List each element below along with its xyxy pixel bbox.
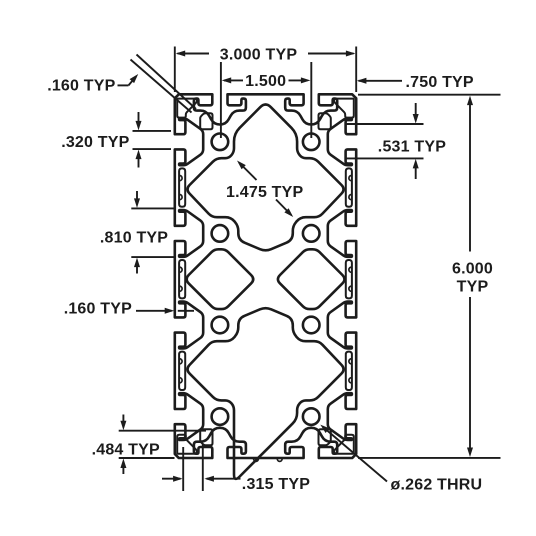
pocket bottom-left <box>200 429 212 445</box>
hole r4 c2 (dia .262) <box>303 408 320 425</box>
svg-text:.484 TYP: .484 TYP <box>92 442 160 459</box>
hole r2 c1 (dia .262) <box>212 225 229 242</box>
svg-text:.531 TYP: .531 TYP <box>378 139 446 156</box>
corner chamber top-left <box>177 99 197 118</box>
face channel serration bump right <box>349 378 352 383</box>
face channel strip-left-1 <box>179 168 185 206</box>
dimension .750 TYP (edge to slot) <box>357 74 474 91</box>
svg-text:6.000: 6.000 <box>452 261 493 278</box>
face channel strip-left-3 <box>179 352 185 390</box>
dimension .320 TYP <box>61 112 171 168</box>
face channel strip-right-1 <box>346 168 352 206</box>
pocket top-left <box>200 113 212 129</box>
face channel serration bump right <box>349 359 352 364</box>
dimension 6.000 TYP (overall height) <box>358 95 501 458</box>
face channel strip-left-2 <box>179 260 185 298</box>
face channel strip-right-3 <box>346 352 352 390</box>
dimension 1.500 (slot spacing) <box>221 62 311 138</box>
corner chamber bottom-left <box>177 435 197 454</box>
svg-text:3.000 TYP: 3.000 TYP <box>220 47 298 64</box>
hole r3 c2 (dia .262) <box>303 317 320 334</box>
svg-text:.160 TYP: .160 TYP <box>47 78 115 95</box>
svg-text:.810 TYP: .810 TYP <box>100 230 168 247</box>
dimension .484 TYP <box>92 415 206 475</box>
corner chamber bottom-right <box>334 435 354 454</box>
pocket bottom-right <box>319 429 331 445</box>
face channel serration bump right <box>349 176 352 181</box>
label diameter .262 THRU (hole callout) <box>320 425 482 494</box>
svg-text:.750 TYP: .750 TYP <box>406 74 474 91</box>
face channel strip-right-2 <box>346 260 352 298</box>
svg-text:TYP: TYP <box>457 279 489 296</box>
face channel serration bump left <box>180 176 183 181</box>
hole r3 c1 (dia .262) <box>212 317 229 334</box>
face channel serration bump left <box>180 359 183 364</box>
dimension 3.000 TYP (overall width) <box>175 47 356 93</box>
label .160 TYP (face wall thickness) <box>64 301 194 318</box>
extrusion outer profile with T-slot openings <box>175 94 356 458</box>
bottom interior cavity <box>187 308 343 479</box>
face channel serration bump left <box>180 267 183 272</box>
bottom face serration tick <box>254 459 259 461</box>
pocket top-right <box>319 113 331 129</box>
label .160 TYP (corner wall thickness) <box>47 55 196 113</box>
label 1.475 TYP (web spacing) <box>226 161 304 218</box>
corner chamber top-right <box>334 99 354 118</box>
middle diamond cavity right <box>278 249 345 309</box>
middle diamond cavity left <box>187 249 254 309</box>
face channel serration bump right <box>349 195 352 200</box>
top interior cavity <box>187 105 343 251</box>
dimension .810 TYP <box>100 191 176 274</box>
face channel serration bump left <box>180 195 183 200</box>
hole r2 c2 (dia .262) <box>303 225 320 242</box>
hole r4 c1 (dia .262) <box>212 408 229 425</box>
svg-text:.160 TYP: .160 TYP <box>64 301 132 318</box>
svg-text:1.500: 1.500 <box>245 73 286 90</box>
face channel serration bump left <box>180 378 183 383</box>
svg-text:ø.262 THRU: ø.262 THRU <box>391 477 483 494</box>
svg-text:.320 TYP: .320 TYP <box>61 134 129 151</box>
bottom face serration tick <box>277 459 282 461</box>
dimension .531 TYP <box>345 103 446 179</box>
face channel serration bump right <box>349 267 352 272</box>
face channel serration bump left <box>180 286 183 291</box>
hole r1 c1 (dia .262) <box>212 134 229 151</box>
face channel serration bump right <box>349 286 352 291</box>
dimension .315 TYP <box>162 444 310 493</box>
svg-text:.315 TYP: .315 TYP <box>242 476 310 493</box>
svg-text:1.475 TYP: 1.475 TYP <box>226 184 304 201</box>
hole r1 c2 (dia .262) <box>303 134 320 151</box>
